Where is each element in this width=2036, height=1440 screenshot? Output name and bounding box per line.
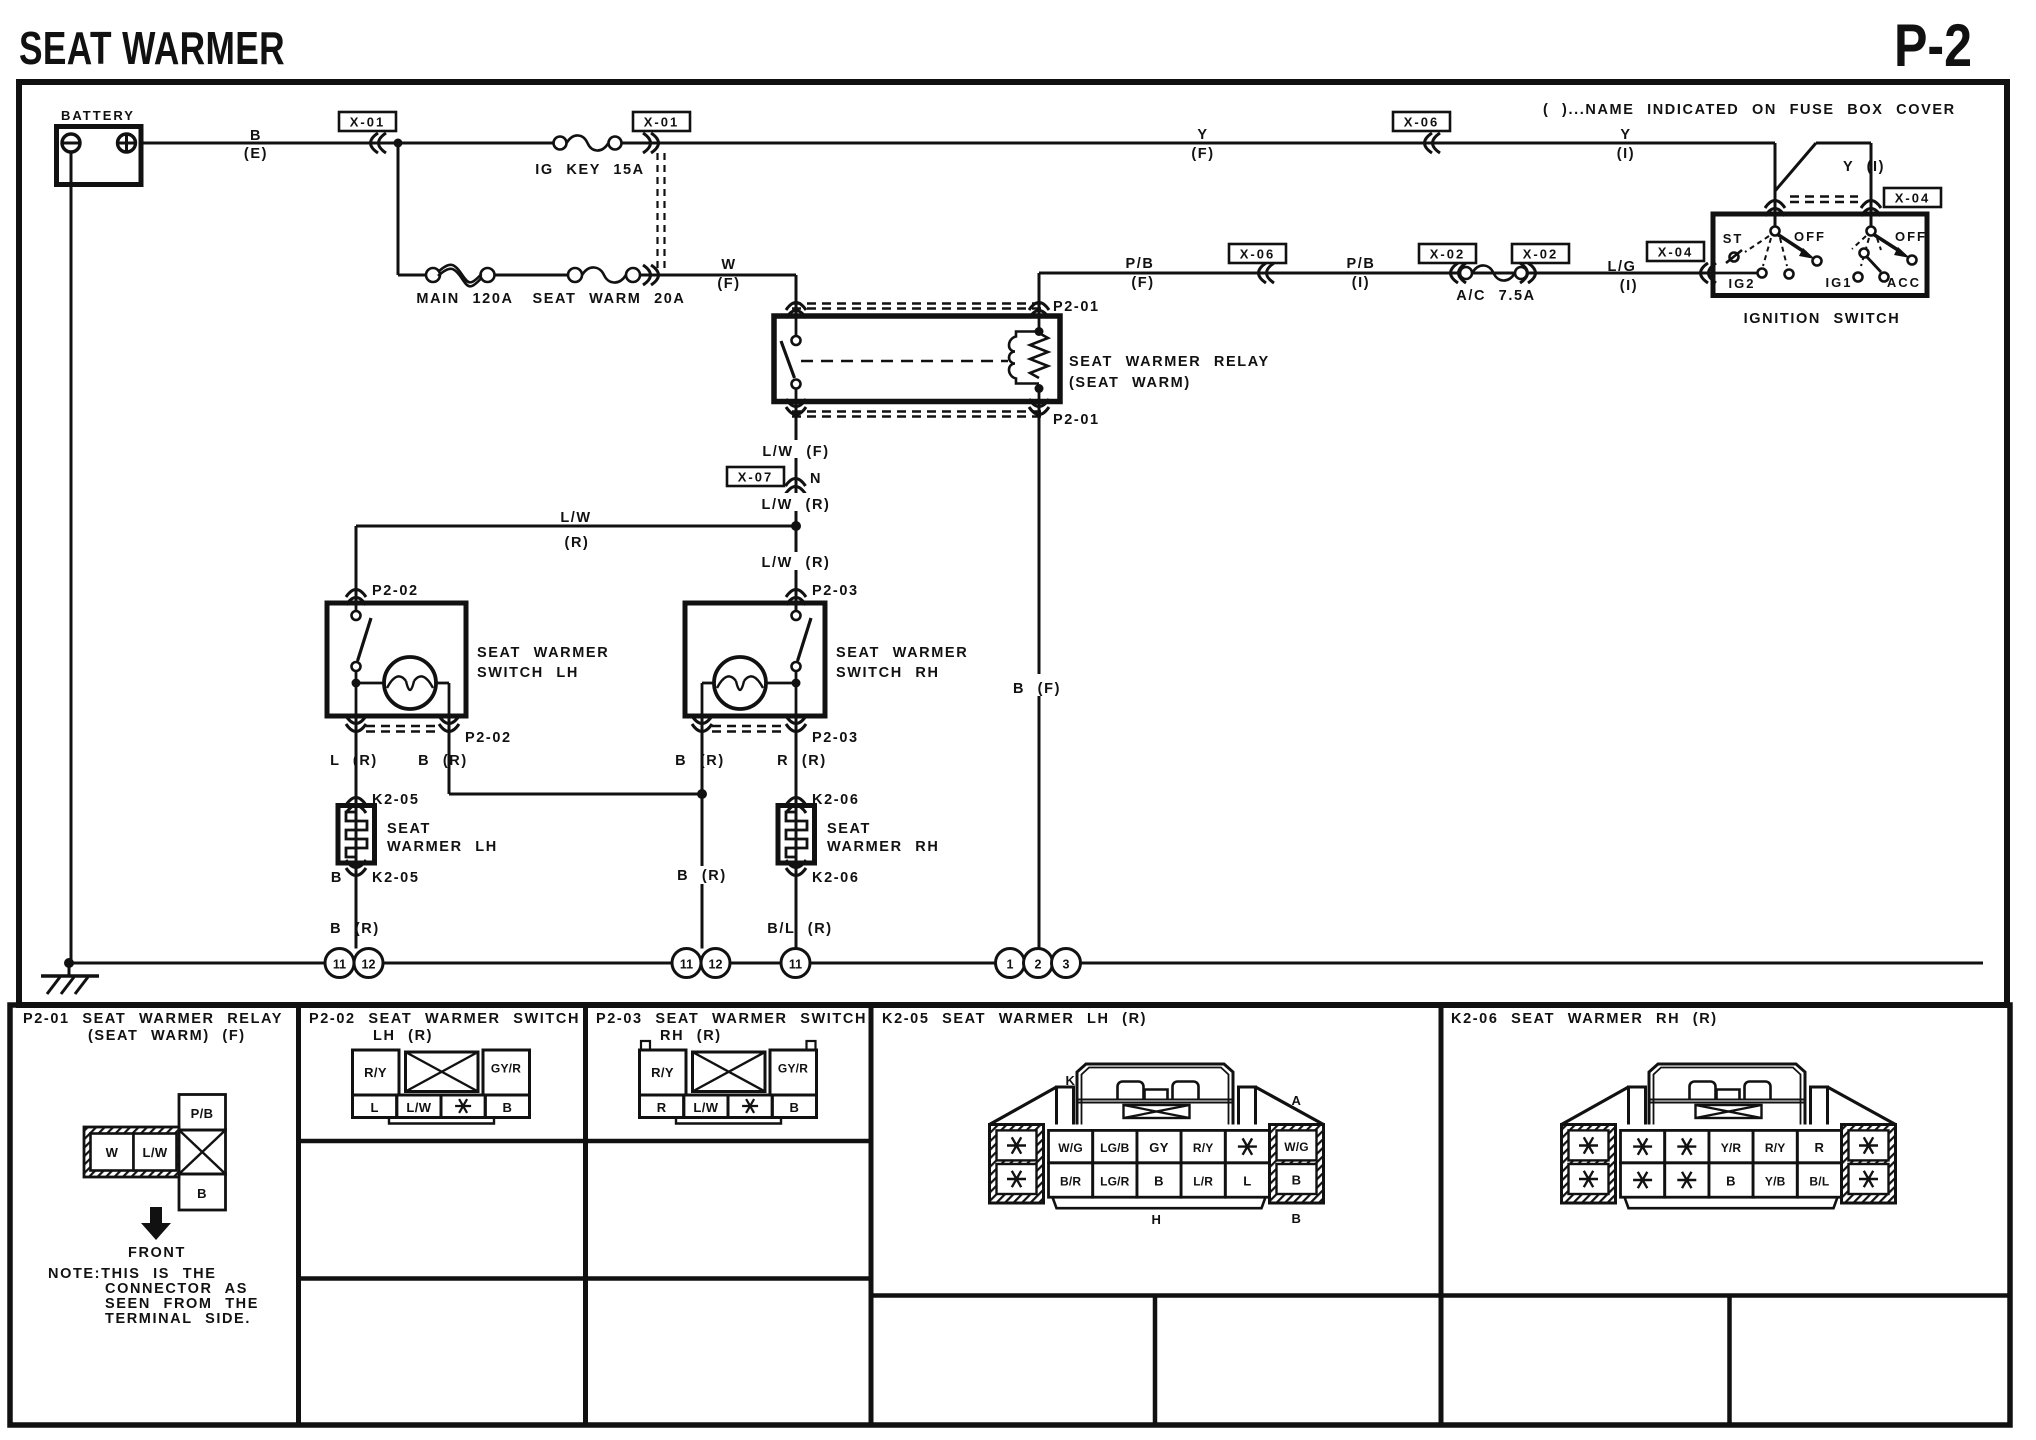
connector K2-05 body left hatched cell <box>990 1125 1044 1204</box>
connector K2-05 pin LG/R r2c2 <box>1093 1163 1137 1197</box>
connector P2-01 pin W <box>91 1134 134 1171</box>
svg-text:12: 12 <box>362 958 376 972</box>
connector K2-06 body left hatched cell <box>1562 1125 1616 1204</box>
node junction B (R) <box>697 789 707 799</box>
svg-text:B (R): B (R) <box>418 753 468 769</box>
svg-text:11: 11 <box>680 958 693 972</box>
svg-text:X-01: X-01 <box>350 115 385 130</box>
table divider col2/col3 <box>583 1005 588 1425</box>
switch LH contacts <box>355 603 358 611</box>
svg-text:Y: Y <box>1197 127 1208 143</box>
wire diagonal branch to Y (I) <box>1775 143 1816 191</box>
connector K2-06 pin star r2c1 <box>1621 1163 1665 1197</box>
connector K2-06 pin Y/B r2c4 <box>1753 1163 1797 1197</box>
svg-text:P2-03: P2-03 <box>812 730 859 746</box>
svg-text:X-06: X-06 <box>1404 115 1439 130</box>
svg-text:R/Y: R/Y <box>1193 1141 1214 1155</box>
svg-text:( )...NAME INDICATED ON FUSE B: ( )...NAME INDICATED ON FUSE BOX COVER <box>1543 102 1956 118</box>
connector K2-05 pin star r1c5 <box>1225 1130 1269 1162</box>
node junction at X-01 <box>394 139 403 148</box>
connector K2-06 pin B/L r2c5 <box>1797 1163 1841 1197</box>
svg-text:(I): (I) <box>1617 146 1636 162</box>
table divider col3/col4 <box>869 1005 874 1425</box>
svg-text:FRONT: FRONT <box>128 1245 186 1261</box>
svg-text:OFF: OFF <box>1895 229 1927 244</box>
svg-text:X-04: X-04 <box>1895 191 1930 206</box>
connector P2-03 pin L/W row2 <box>684 1095 728 1118</box>
label L/W (R) upper <box>760 493 832 511</box>
svg-text:L: L <box>1243 1174 1251 1189</box>
svg-text:Y: Y <box>1620 127 1631 143</box>
connector K2-05 bottom tab <box>1053 1197 1266 1208</box>
wire R (R) <box>795 716 798 949</box>
svg-text:MAIN 120A: MAIN 120A <box>416 291 513 307</box>
main diagram border frame <box>19 82 2007 1005</box>
svg-text:CONNECTOR AS: CONNECTOR AS <box>105 1281 248 1297</box>
connector P2-03 pin R/Y <box>640 1050 687 1095</box>
seat warmer switch RH box <box>685 603 825 716</box>
svg-text:R/Y: R/Y <box>651 1065 674 1080</box>
connector K2-05 chevron upper <box>346 798 366 814</box>
svg-text:X-01: X-01 <box>644 115 679 130</box>
svg-text:W/G: W/G <box>1284 1140 1309 1154</box>
connector P2-03 corner hooks <box>641 1041 650 1050</box>
svg-text:X-02: X-02 <box>1430 247 1465 262</box>
lamp RH indicator <box>766 682 796 685</box>
connector X-04 (top label) <box>1884 188 1941 207</box>
ignition switch bridge contact <box>1860 249 1869 258</box>
svg-text:(F): (F) <box>717 276 740 292</box>
svg-text:L (R): L (R) <box>330 753 378 769</box>
svg-text:L: L <box>370 1100 378 1115</box>
connector K2-05 pin W/G r1c1 <box>1049 1130 1093 1162</box>
svg-text:B (R): B (R) <box>677 868 727 884</box>
svg-text:B: B <box>1292 1211 1303 1226</box>
connector P2-03 key cell X <box>693 1052 766 1092</box>
svg-text:LG/B: LG/B <box>1100 1141 1130 1155</box>
wire branch down from X-01 node <box>397 143 400 275</box>
svg-text:B: B <box>1292 1173 1302 1188</box>
ground terminal 11 (RH) <box>781 949 810 978</box>
switch RH contacts <box>795 603 798 611</box>
svg-text:L/G: L/G <box>1608 259 1637 275</box>
svg-text:11: 11 <box>789 958 802 972</box>
ignition switch box <box>1713 214 1927 296</box>
seat warmer switch LH box <box>327 603 466 716</box>
connector P2-01 pin L/W <box>134 1134 177 1171</box>
svg-text:L/W: L/W <box>560 510 591 526</box>
connector K2-06 pin B r2c3 <box>1709 1163 1753 1197</box>
connector X-06 (lower) <box>1229 244 1286 263</box>
ignition switch left pivot <box>1771 227 1780 236</box>
connector K2-06 chevron upper <box>786 798 806 814</box>
battery BATTERY <box>57 127 142 185</box>
svg-text:(SEAT WARM) (F): (SEAT WARM) (F) <box>88 1028 246 1044</box>
svg-text:B (F): B (F) <box>1013 681 1061 697</box>
node junction L/W (R) <box>791 521 801 531</box>
table divider col4/col5 <box>1439 1005 1444 1425</box>
ignition switch left dashed rays <box>1745 236 1769 252</box>
connector K2-06 bottom tab <box>1625 1197 1838 1208</box>
connector K2-05 pin L/R r2c4 <box>1181 1163 1225 1197</box>
connector P2-03 chevrons below <box>692 716 712 732</box>
svg-text:K2-05: K2-05 <box>372 870 420 886</box>
table sub divider col4 <box>1153 1296 1158 1426</box>
ignition switch OFF contact (left) <box>1813 257 1822 266</box>
svg-text:(E): (E) <box>244 146 268 162</box>
svg-text:1: 1 <box>1007 958 1014 972</box>
table sub divider col5 <box>1727 1296 1732 1426</box>
ignition switch ST contact <box>1730 253 1739 262</box>
connector K2-05 pin B r2c3 <box>1137 1163 1181 1197</box>
wire L/W (R) to left <box>356 525 796 528</box>
connector K2-06 pin star r2c2 <box>1665 1163 1709 1197</box>
ground bus wire <box>67 962 1983 965</box>
ground terminal 11 (mid) <box>672 949 701 978</box>
wire P/B down into relay <box>1038 273 1041 316</box>
svg-text:IG2: IG2 <box>1729 276 1756 291</box>
connector P2-01 key cell X <box>179 1130 226 1174</box>
svg-text:P2-01: P2-01 <box>1053 412 1100 428</box>
svg-text:L/W (F): L/W (F) <box>762 444 829 460</box>
connector X-02 (left label) <box>1419 244 1476 263</box>
svg-text:P/B: P/B <box>1347 256 1376 272</box>
connector K2-05 pin L r2c5 <box>1225 1163 1269 1197</box>
svg-text:B (R): B (R) <box>330 921 380 937</box>
svg-text:SEAT WARMER: SEAT WARMER <box>19 22 285 74</box>
svg-text:WARMER RH: WARMER RH <box>827 839 939 855</box>
connector K2-05 left slope and post <box>990 1087 1057 1125</box>
svg-text:OFF: OFF <box>1794 229 1826 244</box>
svg-text:B: B <box>789 1100 799 1115</box>
svg-text:P2-02: P2-02 <box>465 730 512 746</box>
svg-text:X-04: X-04 <box>1658 245 1693 260</box>
fuse IG KEY 15A <box>554 137 567 150</box>
svg-text:B: B <box>331 870 343 886</box>
table row line cols2-3 upper <box>299 1139 872 1144</box>
battery negative terminal <box>62 134 80 152</box>
svg-text:Y/B: Y/B <box>1765 1175 1786 1189</box>
svg-text:ST: ST <box>1723 231 1744 246</box>
battery positive terminal <box>118 134 136 152</box>
connector K2-06 top cap <box>1649 1064 1805 1125</box>
svg-text:IG1: IG1 <box>1826 275 1853 290</box>
connector K2-06 chevron lower <box>786 860 806 876</box>
connector X-04 (left label) <box>1647 242 1704 261</box>
svg-text:(R): (R) <box>565 535 590 551</box>
connector X-01 dashed pass-through lines <box>656 153 658 271</box>
table row line cols2-3 lower <box>299 1276 872 1281</box>
svg-text:SEAT WARMER: SEAT WARMER <box>477 645 609 661</box>
connector X-07 <box>727 467 784 486</box>
svg-text:BATTERY: BATTERY <box>61 108 135 123</box>
svg-text:IG KEY 15A: IG KEY 15A <box>535 162 645 178</box>
connector K2-05 body right hatched cell <box>1270 1125 1324 1204</box>
svg-text:P/B: P/B <box>191 1106 214 1121</box>
svg-text:N: N <box>810 471 822 487</box>
svg-text:X-07: X-07 <box>738 470 773 485</box>
svg-text:B: B <box>250 128 262 144</box>
ignition switch right dashed rays <box>1852 236 1866 249</box>
svg-text:X-02: X-02 <box>1523 247 1558 262</box>
connector K2-05 top cap <box>1077 1064 1233 1125</box>
connector table outer border <box>10 1005 2010 1425</box>
svg-text:LG/R: LG/R <box>1100 1175 1130 1189</box>
connector P2-01 pin P/B <box>179 1095 226 1131</box>
connector P2-02 chevron above <box>346 590 366 606</box>
svg-text:11: 11 <box>333 958 346 972</box>
connector P2-03 pin B row2 <box>772 1095 816 1118</box>
svg-text:(SEAT WARM): (SEAT WARM) <box>1069 375 1191 391</box>
svg-text:B: B <box>197 1186 207 1201</box>
svg-text:A: A <box>1292 1093 1303 1108</box>
relay internal dashed control line <box>801 360 1008 363</box>
svg-text:K2-06 SEAT WARMER RH (R): K2-06 SEAT WARMER RH (R) <box>1451 1011 1718 1027</box>
svg-text:GY/R: GY/R <box>491 1062 521 1076</box>
connector P2-02 pin L/W row2 <box>397 1095 441 1118</box>
connector K2-06 pin Y/R r1c3 <box>1709 1130 1753 1162</box>
connector K2-05 cap key X <box>1124 1105 1190 1118</box>
seat warmer LH heating element <box>338 806 375 864</box>
svg-text:B/R: B/R <box>1060 1175 1081 1189</box>
relay coil <box>1038 316 1041 331</box>
svg-text:K: K <box>1066 1073 1077 1088</box>
connector P2-01 chevrons above relay <box>786 303 806 319</box>
connector P2-01 chevrons below relay <box>786 399 806 415</box>
fuse SEAT WARM 20A <box>568 268 582 282</box>
svg-text:B/L: B/L <box>1809 1175 1829 1189</box>
svg-text:(F): (F) <box>1191 146 1214 162</box>
ground terminal 1 <box>996 949 1025 978</box>
connector K2-06 cap key X <box>1696 1105 1762 1118</box>
connector K2-06 cap tabs <box>1690 1082 1716 1100</box>
svg-text:B (R): B (R) <box>675 753 725 769</box>
connector P2-02 pin B row2 <box>485 1095 529 1118</box>
svg-text:L/W (R): L/W (R) <box>762 555 831 571</box>
svg-text:A/C 7.5A: A/C 7.5A <box>1456 288 1535 304</box>
svg-text:X-06: X-06 <box>1240 247 1275 262</box>
svg-text:L/W (R): L/W (R) <box>762 497 831 513</box>
connector K2-05 pin LG/B r1c2 <box>1093 1130 1137 1162</box>
svg-text:W/G: W/G <box>1058 1141 1083 1155</box>
connector K2-06 right slope and post <box>1828 1087 1896 1125</box>
svg-text:3: 3 <box>1063 958 1070 972</box>
svg-text:GY: GY <box>1149 1140 1169 1155</box>
ignition switch OFF contact (right) <box>1908 256 1917 265</box>
svg-text:P2-03 SEAT WARMER SWITCH: P2-03 SEAT WARMER SWITCH <box>596 1011 867 1027</box>
svg-text:R/Y: R/Y <box>1765 1141 1786 1155</box>
wire down to LH switch <box>355 526 358 605</box>
connector K2-06 pin star r1c2 <box>1665 1130 1709 1162</box>
connector K2-05 chevron lower <box>346 860 366 876</box>
svg-text:P2-02 SEAT WARMER SWITCH: P2-02 SEAT WARMER SWITCH <box>309 1011 580 1027</box>
svg-text:R/Y: R/Y <box>364 1065 387 1080</box>
connector K2-06 body right hatched cell <box>1842 1125 1896 1204</box>
svg-text:B: B <box>1726 1174 1736 1189</box>
connector K2-06 pin star r1c1 <box>1621 1130 1665 1162</box>
ground terminal 12 (mid) <box>701 949 730 978</box>
svg-text:SEAT WARMER RELAY: SEAT WARMER RELAY <box>1069 354 1270 370</box>
table row line cols4-5 <box>871 1293 2010 1298</box>
svg-text:B: B <box>502 1100 512 1115</box>
ground terminal 11 (LH) <box>325 949 354 978</box>
ground node junction <box>64 958 74 968</box>
wire between fuses <box>494 274 569 277</box>
connector P2-02 chevrons below <box>346 716 366 732</box>
connector P2-02 pin L row2 <box>353 1095 397 1118</box>
ignition switch right arm to OFF <box>1873 234 1901 252</box>
connector P2-02 bottom tab <box>389 1118 494 1124</box>
ground terminal 2 <box>1024 949 1053 978</box>
svg-text:2: 2 <box>1035 958 1042 972</box>
svg-text:P2-02: P2-02 <box>372 583 419 599</box>
wire W (F) to relay <box>795 275 798 316</box>
label L/W (R) lower <box>760 552 832 570</box>
ignition switch IG2 contacts <box>1713 272 1757 275</box>
svg-text:L/W: L/W <box>406 1100 431 1115</box>
wire fuse to W (F) <box>640 274 797 277</box>
connector X-01 (left) <box>339 112 396 131</box>
connector X-01 (right) <box>633 112 690 131</box>
svg-text:(F): (F) <box>1131 275 1154 291</box>
svg-text:L/W: L/W <box>693 1100 718 1115</box>
wire B (E) battery positive to X-01 <box>141 142 398 145</box>
wire P/B from relay to ignition <box>1039 272 1713 275</box>
svg-text:SEAT: SEAT <box>827 821 871 837</box>
wire fuse to X-01 right <box>622 142 1776 145</box>
svg-text:W: W <box>106 1145 119 1160</box>
ground terminal 12 (LH) <box>354 949 383 978</box>
svg-text:IGNITION SWITCH: IGNITION SWITCH <box>1744 311 1901 327</box>
wire Y (I) down to ignition switch right <box>1870 143 1873 227</box>
svg-text:K2-05: K2-05 <box>372 792 420 808</box>
svg-text:R (R): R (R) <box>777 753 827 769</box>
svg-text:W: W <box>721 257 736 273</box>
connector K2-05 right slope and post <box>1256 1087 1324 1125</box>
connector P2-01 hatched frame <box>84 1127 179 1177</box>
relay switch contacts <box>795 316 798 336</box>
connector P2-03 pin star row2 <box>728 1095 772 1118</box>
svg-text:P/B: P/B <box>1126 256 1155 272</box>
connector P2-02 pin GY/R <box>483 1050 530 1095</box>
connector K2-05 pin B/R r2c1 <box>1049 1163 1093 1197</box>
wire L/W (F) relay to X-07 <box>795 402 798 612</box>
ground symbol <box>68 963 71 976</box>
connector K2-05 pin R/Y r1c4 <box>1181 1130 1225 1162</box>
wire L (R) <box>355 716 358 949</box>
svg-text:SWITCH LH: SWITCH LH <box>477 665 579 681</box>
ground terminal 3 <box>1052 949 1081 978</box>
svg-text:P-2: P-2 <box>1894 12 1972 79</box>
svg-text:Y/R: Y/R <box>1721 1141 1742 1155</box>
wire B (R) center to ground <box>701 716 704 866</box>
svg-text:L/W: L/W <box>142 1145 167 1160</box>
svg-text:NOTE:THIS IS THE: NOTE:THIS IS THE <box>48 1266 217 1282</box>
svg-text:(I): (I) <box>1352 275 1371 291</box>
svg-text:ACC: ACC <box>1887 275 1921 290</box>
connector K2-06 pin R r1c5 <box>1797 1130 1841 1162</box>
wire to fuse IG KEY <box>398 142 554 145</box>
connector P2-01 pin B <box>179 1174 226 1210</box>
wire battery negative to ground <box>70 152 73 962</box>
svg-text:RH (R): RH (R) <box>660 1028 722 1044</box>
connector K2-06 left slope and post <box>1562 1087 1629 1125</box>
connector X-02 (right label) <box>1512 244 1569 263</box>
connector X-06 (top) <box>1393 112 1450 131</box>
svg-text:K2-06: K2-06 <box>812 792 860 808</box>
connector K2-06 pin R/Y r1c4 <box>1753 1130 1797 1162</box>
svg-text:R: R <box>657 1100 667 1115</box>
svg-text:SEAT WARMER: SEAT WARMER <box>836 645 968 661</box>
wire B (R) from LH switch <box>448 716 451 794</box>
fuse A/C 7.5A with X-02 chevrons <box>1451 263 1467 283</box>
svg-text:B: B <box>1154 1174 1164 1189</box>
lamp LH indicator <box>356 682 384 685</box>
ignition switch ACC contact <box>1880 273 1889 282</box>
connector P2-02 key cell X <box>406 1052 479 1092</box>
relay box seat warmer relay <box>774 316 1060 402</box>
svg-text:H: H <box>1152 1212 1163 1227</box>
svg-text:(I): (I) <box>1620 278 1639 294</box>
svg-text:P2-03: P2-03 <box>812 583 859 599</box>
svg-text:R: R <box>1815 1140 1825 1155</box>
ignition switch left arm to OFF <box>1777 234 1806 253</box>
wire Y down to ignition switch left <box>1774 143 1777 227</box>
connector P2-03 chevron above <box>786 590 806 606</box>
svg-text:GY/R: GY/R <box>778 1062 808 1076</box>
svg-text:SEAT WARM 20A: SEAT WARM 20A <box>533 291 686 307</box>
label L/W (F) <box>760 440 832 458</box>
connector K2-05 pin GY r1c3 <box>1137 1130 1181 1162</box>
svg-text:SWITCH RH: SWITCH RH <box>836 665 940 681</box>
svg-text:P2-01 SEAT WARMER RELAY: P2-01 SEAT WARMER RELAY <box>23 1011 283 1027</box>
table divider col1/col2 <box>296 1005 301 1425</box>
svg-text:TERMINAL SIDE.: TERMINAL SIDE. <box>105 1311 251 1327</box>
svg-text:SEEN FROM THE: SEEN FROM THE <box>105 1296 259 1312</box>
connector P2-03 pin GY/R <box>770 1050 817 1095</box>
connector P2-02 pin R/Y <box>353 1050 400 1095</box>
wire B (F) relay to ground <box>1038 402 1041 675</box>
fuse MAIN 120A <box>426 268 440 282</box>
svg-text:12: 12 <box>709 958 723 972</box>
ignition switch right pivot <box>1867 227 1876 236</box>
svg-text:P2-01: P2-01 <box>1053 299 1100 315</box>
svg-text:SEAT: SEAT <box>387 821 431 837</box>
connector X-04 chevrons and dashed line <box>1765 201 1785 217</box>
seat warmer RH heating element <box>778 806 815 864</box>
svg-text:K2-05 SEAT WARMER LH (R): K2-05 SEAT WARMER LH (R) <box>882 1011 1147 1027</box>
svg-text:LH (R): LH (R) <box>373 1028 433 1044</box>
svg-text:WARMER LH: WARMER LH <box>387 839 498 855</box>
svg-text:Y (I): Y (I) <box>1843 159 1885 175</box>
svg-text:B/L (R): B/L (R) <box>767 921 832 937</box>
ignition switch IG1 contact <box>1854 273 1863 282</box>
svg-text:K2-06: K2-06 <box>812 870 860 886</box>
connector P2-03 bottom tab <box>676 1118 781 1124</box>
connector P2-02 pin star row2 <box>441 1095 485 1118</box>
connector P2-03 pin R row2 <box>640 1095 684 1118</box>
front direction arrow <box>141 1207 171 1240</box>
svg-text:L/R: L/R <box>1193 1175 1213 1189</box>
connector K2-05 cap tabs <box>1118 1082 1144 1100</box>
